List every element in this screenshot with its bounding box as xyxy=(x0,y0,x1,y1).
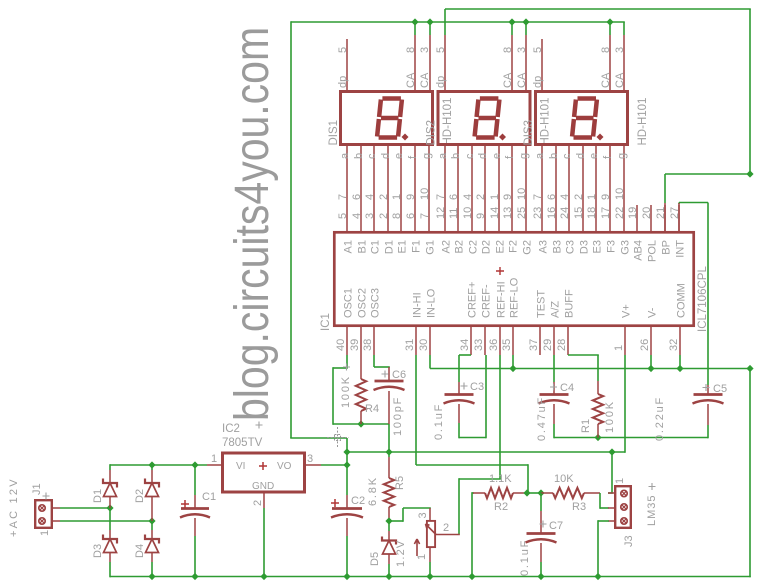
IC1 pin stub 19 xyxy=(636,205,638,231)
junction REF-LO xyxy=(509,365,516,372)
svg-text:f: f xyxy=(407,155,419,159)
svg-text:CREF+: CREF+ xyxy=(467,282,479,318)
wire CREF- down xyxy=(485,355,487,438)
capacitor C5 0.22uF xyxy=(707,385,709,394)
J3 pin 1 xyxy=(621,490,627,496)
pin stub J3 pin1 xyxy=(608,492,614,494)
svg-text:22: 22 xyxy=(614,207,626,219)
svg-text:1: 1 xyxy=(39,530,51,536)
junction R4 bottom xyxy=(357,420,364,427)
wire display segment to IC1 xyxy=(360,146,362,231)
wire DIS2 CA pin3 to rail xyxy=(525,22,527,35)
svg-text:A2: A2 xyxy=(441,240,453,253)
junction V+ rail / reg node xyxy=(343,448,350,455)
junction C2 / rail xyxy=(343,573,350,580)
svg-text:25: 25 xyxy=(516,207,528,219)
svg-text:CA: CA xyxy=(502,72,514,88)
junction V+ rail / R5 xyxy=(385,448,392,455)
connector J3 LM35 xyxy=(615,486,631,528)
capacitor C2 xyxy=(346,465,348,495)
resistor R3 10K xyxy=(541,492,553,494)
svg-text:g: g xyxy=(616,153,628,159)
wire line B right drop xyxy=(749,9,751,174)
IC1 origin cross xyxy=(496,267,504,275)
svg-text:30: 30 xyxy=(418,339,430,351)
svg-text:OSC3: OSC3 xyxy=(370,288,382,318)
pin stub xyxy=(609,35,611,90)
svg-text:blog.circuits4you.com: blog.circuits4you.com xyxy=(224,27,279,421)
wire display segment to IC1 xyxy=(484,146,486,231)
svg-text:IC1: IC1 xyxy=(320,313,332,331)
svg-text:35: 35 xyxy=(501,339,513,351)
svg-text:C3: C3 xyxy=(565,240,577,254)
pin stub J1 top xyxy=(52,507,60,509)
svg-text:D2: D2 xyxy=(481,240,493,254)
svg-text:a: a xyxy=(534,152,546,159)
IC1 pin stub 27 xyxy=(678,205,680,231)
wire display segment to IC1 xyxy=(428,146,430,231)
C3 origin cross xyxy=(461,383,468,390)
svg-text:17: 17 xyxy=(600,207,612,219)
svg-text:6: 6 xyxy=(405,213,417,219)
svg-text:11: 11 xyxy=(448,208,460,219)
svg-text:D1: D1 xyxy=(384,240,396,254)
svg-text:c: c xyxy=(366,153,378,159)
C7 origin cross xyxy=(540,521,547,528)
wire V+ to J3 pin1 drop xyxy=(611,452,613,493)
wire COMM down xyxy=(679,355,681,369)
wire REF-LO down xyxy=(512,355,514,369)
resistor R5 6.8K xyxy=(388,452,390,457)
svg-text:7: 7 xyxy=(337,194,349,200)
svg-text:7: 7 xyxy=(435,194,447,200)
svg-text:e: e xyxy=(491,153,503,159)
svg-text:INT: INT xyxy=(675,240,687,258)
wire J3 pin3 to ground xyxy=(598,520,609,522)
svg-text:CA: CA xyxy=(614,72,626,88)
svg-text:B3: B3 xyxy=(552,240,564,253)
IC1 pin stub 35 xyxy=(512,327,514,355)
svg-text:9: 9 xyxy=(600,194,612,200)
wire IN-LO down xyxy=(429,355,431,369)
svg-text:BUFF: BUFF xyxy=(564,289,576,318)
svg-text:c: c xyxy=(464,153,476,159)
svg-text:CA: CA xyxy=(419,72,431,88)
IC1 pin stub 28 xyxy=(567,327,569,355)
J3 pin 3 xyxy=(621,518,627,524)
svg-text:BP: BP xyxy=(661,240,673,255)
svg-text:R4: R4 xyxy=(365,403,379,415)
svg-text:A1: A1 xyxy=(343,240,355,253)
IC2 origin cross xyxy=(256,422,263,429)
junction C1 / rail xyxy=(191,573,198,580)
svg-text:R3: R3 xyxy=(572,501,586,513)
svg-text:5: 5 xyxy=(435,47,447,53)
svg-text:36: 36 xyxy=(488,339,500,351)
svg-text:e: e xyxy=(393,153,405,159)
wire display segment to IC1 xyxy=(609,146,611,231)
pin stub BP xyxy=(664,203,666,231)
svg-text:4: 4 xyxy=(351,213,363,219)
svg-text:5: 5 xyxy=(337,213,349,219)
svg-text:E2: E2 xyxy=(495,240,507,253)
svg-text:CREF-: CREF- xyxy=(481,284,493,318)
wire osc node to V+ rail xyxy=(388,424,390,452)
svg-text:HD-H101: HD-H101 xyxy=(540,98,552,146)
svg-text:POL: POL xyxy=(647,240,659,262)
svg-text:10K: 10K xyxy=(554,473,574,485)
junction V- xyxy=(647,365,654,372)
svg-text:7: 7 xyxy=(532,194,544,200)
svg-text:5: 5 xyxy=(337,47,349,53)
wire display segment to IC1 xyxy=(373,146,375,231)
wire IN-HI drop to R2/R3 node xyxy=(527,464,529,493)
svg-text:0.22uF: 0.22uF xyxy=(654,396,666,441)
svg-text:IC2: IC2 xyxy=(222,423,240,435)
svg-text:2: 2 xyxy=(378,194,390,200)
svg-text:6.8K: 6.8K xyxy=(367,476,379,506)
wire J1 top to bridge xyxy=(60,507,111,509)
IC1 pin stub 32 xyxy=(679,327,681,355)
svg-text:8: 8 xyxy=(405,47,417,53)
IC1 pin stub 39 xyxy=(360,327,362,355)
svg-text:g: g xyxy=(421,153,433,159)
wire display segment to IC1 xyxy=(541,146,543,231)
junction IC2 gnd / rail xyxy=(260,573,267,580)
junction R2/R3 node xyxy=(523,489,530,496)
svg-text:IN-HI: IN-HI xyxy=(412,292,424,318)
svg-text:VO: VO xyxy=(277,461,292,472)
svg-text:REF-LO: REF-LO xyxy=(509,277,521,318)
diode D3 xyxy=(109,508,111,530)
pin stub VO xyxy=(306,464,321,466)
junction R2 / rail xyxy=(468,573,475,580)
svg-text:CA: CA xyxy=(405,72,417,88)
capacitor C4 0.47uF xyxy=(553,382,555,394)
wire R2 left to ground xyxy=(471,492,473,577)
wire ground rail xyxy=(110,576,751,578)
svg-text:16: 16 xyxy=(546,207,558,219)
junction COMM xyxy=(676,365,683,372)
IC1 pin stub 34 xyxy=(470,327,472,355)
junction R5 bottom xyxy=(385,517,392,524)
svg-text:G3: G3 xyxy=(620,240,632,255)
svg-text:31: 31 xyxy=(404,339,416,351)
display DIS2 HD-H101 xyxy=(438,92,530,145)
svg-text:a: a xyxy=(339,152,351,159)
wire R5 to trimmer xyxy=(389,520,403,522)
junction trimmer / rail xyxy=(426,573,433,580)
C5 origin cross xyxy=(703,384,710,391)
wire display segment to IC1 xyxy=(414,146,416,231)
svg-text:1: 1 xyxy=(614,478,626,484)
svg-text:D5: D5 xyxy=(369,552,381,566)
svg-text:AB4: AB4 xyxy=(633,240,645,261)
wire BUFF right xyxy=(568,354,599,356)
wire J1 bottom to bridge xyxy=(60,520,153,522)
svg-text:R5: R5 xyxy=(394,476,406,490)
junction bridge mid left xyxy=(106,504,113,511)
wire display segment to IC1 xyxy=(387,146,389,231)
junction DIS1 CA pin8 xyxy=(411,18,418,25)
wire REF-HI down xyxy=(499,355,501,479)
svg-text:10: 10 xyxy=(462,207,474,219)
svg-text:F3: F3 xyxy=(606,240,618,253)
wire bridge + rail xyxy=(110,464,207,466)
wire DIS3 CA pin3 rail end drop xyxy=(623,22,625,35)
svg-text:HD-H101: HD-H101 xyxy=(637,98,649,146)
svg-text:1.1K: 1.1K xyxy=(489,473,512,485)
svg-text:c: c xyxy=(561,153,573,159)
svg-text:0.1uF: 0.1uF xyxy=(433,403,445,440)
junction DIS1 CA pin3 xyxy=(426,18,433,25)
wire OSC1 down xyxy=(346,355,348,368)
svg-text:d: d xyxy=(575,153,587,159)
pin stub trimmer top xyxy=(429,508,431,520)
wire OSC1 left xyxy=(333,367,348,369)
digit 8 of DIS1 xyxy=(377,99,402,138)
svg-text:A/Z: A/Z xyxy=(550,301,562,318)
svg-text:15: 15 xyxy=(573,207,585,219)
svg-text:6: 6 xyxy=(351,194,363,200)
wire trimmer to ground rail xyxy=(429,562,431,577)
wire display segment to IC1 xyxy=(525,146,527,231)
svg-text:B2: B2 xyxy=(454,240,466,253)
svg-text:2: 2 xyxy=(252,500,264,506)
capacitor C1 xyxy=(194,465,196,495)
svg-text:V+: V+ xyxy=(621,304,633,318)
svg-text:J3: J3 xyxy=(623,535,635,547)
diode D2 xyxy=(151,465,153,470)
wire V+ rail drop to reg xyxy=(346,452,348,465)
svg-text:4: 4 xyxy=(559,194,571,200)
wire DIS1 CA pin3 to rail xyxy=(429,22,431,35)
wire integrator bottom net xyxy=(554,437,708,439)
wire INT right xyxy=(679,202,708,204)
svg-text:dp: dp xyxy=(337,76,349,88)
C4 origin cross xyxy=(550,384,557,391)
svg-text:b: b xyxy=(548,153,560,159)
svg-text:f: f xyxy=(504,155,516,159)
svg-text:D1: D1 xyxy=(92,489,104,503)
junction DIS2 CA pin3 xyxy=(522,18,529,25)
svg-text:CA: CA xyxy=(600,72,612,88)
svg-text:4: 4 xyxy=(462,194,474,200)
svg-text:12: 12 xyxy=(435,207,447,219)
C2 plus xyxy=(331,499,339,507)
pin stub VI xyxy=(207,464,221,466)
wire display segment to IC1 xyxy=(555,146,557,231)
junction R3/C7 node xyxy=(537,489,544,496)
pin stub xyxy=(429,35,431,90)
svg-text:8: 8 xyxy=(391,213,403,219)
pin stub xyxy=(414,35,416,90)
svg-text:LM35: LM35 xyxy=(646,494,658,526)
svg-text:e: e xyxy=(588,153,600,159)
wire display segment to IC1 xyxy=(595,146,597,231)
svg-text:3: 3 xyxy=(307,453,313,465)
svg-text:32: 32 xyxy=(668,339,680,351)
pin stub DIS1 dp xyxy=(346,39,348,90)
wire INT drop to C5 xyxy=(707,203,709,386)
svg-text:G1: G1 xyxy=(425,240,437,255)
svg-text:40: 40 xyxy=(335,339,347,351)
svg-text:3: 3 xyxy=(614,47,626,53)
svg-text:8: 8 xyxy=(600,47,612,53)
svg-text:D4: D4 xyxy=(134,544,146,558)
svg-text:D2: D2 xyxy=(134,489,146,503)
svg-text:1.2V: 1.2V xyxy=(395,540,407,567)
wire IN-HI down xyxy=(415,355,417,465)
svg-text:G2: G2 xyxy=(522,240,534,255)
junction C7 / rail xyxy=(537,573,544,580)
diode D1 xyxy=(109,470,111,483)
wire trimmer wiper xyxy=(436,534,460,536)
C1 plus xyxy=(181,500,189,508)
pin stub xyxy=(444,35,446,90)
junction DIS3 CA pin8 xyxy=(606,18,613,25)
wire GND down to rail xyxy=(263,508,265,577)
wire V- down xyxy=(650,355,652,369)
pin stub INT xyxy=(678,203,680,231)
svg-text:DIS1: DIS1 xyxy=(328,120,340,146)
display DIS3 HD-H101 xyxy=(536,92,628,145)
wire osc left rail xyxy=(332,367,334,425)
svg-text:R1: R1 xyxy=(580,419,592,433)
R4 origin cross xyxy=(343,364,350,371)
svg-text:23: 23 xyxy=(532,207,544,219)
pin stub xyxy=(525,35,527,90)
svg-text:14: 14 xyxy=(489,207,501,219)
capacitor C7 0.1uF xyxy=(540,493,542,511)
capacitor C6 100pF xyxy=(373,355,375,367)
junction C1 top xyxy=(191,461,198,468)
svg-text:J1: J1 xyxy=(31,483,43,495)
capacitor C3 0.1uF xyxy=(458,382,460,394)
op-amp U1 : IC1 ICL7106CPL body xyxy=(334,232,693,325)
svg-text:1: 1 xyxy=(489,194,501,200)
wire CREF+ left xyxy=(459,354,471,356)
resistor R4 100K xyxy=(360,355,362,379)
svg-text:C6: C6 xyxy=(392,369,406,381)
IC1 pin stub 31 xyxy=(415,327,417,355)
svg-text:10: 10 xyxy=(614,188,626,200)
pin stub DIS3 dp xyxy=(541,39,543,90)
IC2 plus xyxy=(259,462,267,470)
junction COMMON / right drop xyxy=(746,365,753,372)
resistor R2 1.1K xyxy=(472,492,474,494)
svg-text:7805TV: 7805TV xyxy=(222,437,263,449)
wire drop to V+ rail xyxy=(346,438,348,452)
svg-text:38: 38 xyxy=(362,339,374,351)
J1 pin bottom xyxy=(39,518,45,524)
J3 pin 2 xyxy=(621,504,627,510)
svg-text:f: f xyxy=(602,155,614,159)
svg-text:HD-H101: HD-H101 xyxy=(442,98,454,146)
junction R1 bottom xyxy=(594,434,601,441)
svg-text:2: 2 xyxy=(378,213,390,219)
C6 origin cross xyxy=(382,371,389,378)
wire D1 top xyxy=(109,464,111,470)
svg-text:18: 18 xyxy=(586,207,598,219)
svg-text:19: 19 xyxy=(627,207,639,219)
svg-text:1: 1 xyxy=(586,194,598,200)
LM35 origin cross xyxy=(649,483,656,490)
digit 8 of DIS3 xyxy=(572,99,597,138)
wire display segment to IC1 xyxy=(582,146,584,231)
IC1 pin stub 33 xyxy=(484,327,486,355)
svg-text:C1: C1 xyxy=(370,240,382,254)
svg-text:100pF: 100pF xyxy=(392,396,404,436)
svg-text:TEST: TEST xyxy=(536,290,548,318)
wire C3 bottom xyxy=(459,437,486,439)
voltage regulator IC2 7805TV xyxy=(223,453,305,492)
svg-text:C3: C3 xyxy=(470,381,484,393)
display DIS1 HD-H101 xyxy=(341,92,433,145)
diode D4 xyxy=(151,521,153,530)
wire BP up xyxy=(664,174,666,203)
svg-text:0.47uF: 0.47uF xyxy=(536,396,548,441)
svg-text:100K: 100K xyxy=(340,375,352,408)
wire display segment to IC1 xyxy=(498,146,500,231)
svg-text:100K: 100K xyxy=(604,400,616,433)
pin stub J1 bottom xyxy=(52,520,60,522)
svg-text:2: 2 xyxy=(573,194,585,200)
svg-text:CA: CA xyxy=(516,72,528,88)
IC1 pin stub 1 xyxy=(624,327,626,355)
wire A/Z down xyxy=(553,355,555,382)
pin stub J3 pin2 xyxy=(608,507,614,509)
wire line A left drop xyxy=(290,21,292,438)
svg-text:13: 13 xyxy=(502,207,514,219)
wire DIS1 CA pin8 to rail xyxy=(414,22,416,35)
svg-text:b: b xyxy=(450,153,462,159)
svg-text:1: 1 xyxy=(211,453,217,465)
svg-text:GND: GND xyxy=(252,481,274,492)
wire V+ pin down to rail xyxy=(624,355,626,453)
svg-text:9: 9 xyxy=(502,194,514,200)
junction VO/C2/V+ xyxy=(343,461,350,468)
pin stub GND xyxy=(263,493,265,508)
svg-text:C7: C7 xyxy=(549,520,563,532)
wire display segment to IC1 xyxy=(444,146,446,231)
svg-text:29: 29 xyxy=(542,339,554,351)
svg-text:1: 1 xyxy=(613,345,625,351)
wire VO to node xyxy=(321,464,348,466)
pin stub trimmer bottom xyxy=(429,548,431,562)
svg-text:0.1uF: 0.1uF xyxy=(519,539,531,576)
svg-text:20: 20 xyxy=(641,207,653,219)
svg-text:E3: E3 xyxy=(592,240,604,253)
wire display segment to IC1 xyxy=(471,146,473,231)
IC1 pin stub 36 xyxy=(499,327,501,355)
svg-text:dp: dp xyxy=(532,76,544,88)
wire right drop to ground rail xyxy=(749,369,751,578)
IC1 pin stub 21 xyxy=(664,205,666,231)
svg-text:2: 2 xyxy=(475,194,487,200)
svg-text:28: 28 xyxy=(556,339,568,351)
junction DIS2 CA pin8 xyxy=(508,18,515,25)
wire DIS2 dp pin to line B xyxy=(444,9,446,35)
svg-text:C2: C2 xyxy=(351,495,365,507)
svg-text:OSC2: OSC2 xyxy=(357,288,369,318)
svg-text:24: 24 xyxy=(559,207,571,219)
pin stub xyxy=(623,35,625,90)
IC1 pin stub 26 xyxy=(650,327,652,355)
svg-text:d: d xyxy=(477,153,489,159)
wire R3 to J3 pin2 xyxy=(599,493,601,509)
svg-text:8: 8 xyxy=(502,47,514,53)
